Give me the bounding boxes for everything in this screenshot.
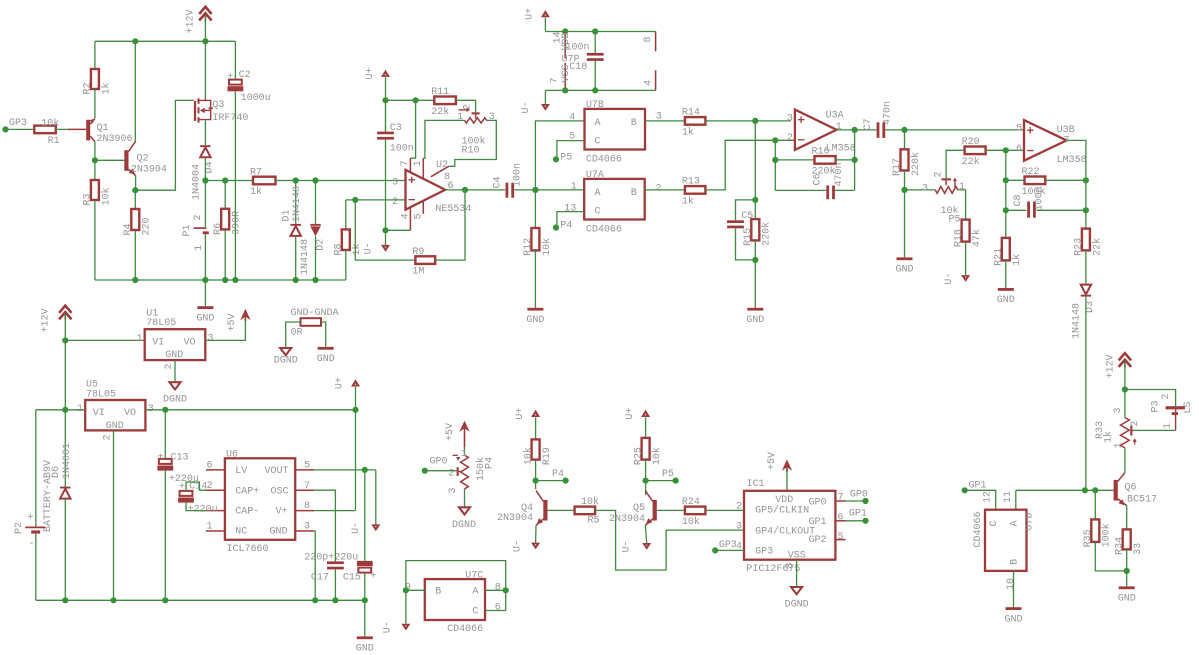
- pin GP2 stub: [835, 539, 845, 541]
- resistor R25 10k: [642, 438, 650, 460]
- svg-text:D2: D2: [316, 239, 327, 251]
- svg-text:R34: R34: [1114, 537, 1125, 555]
- svg-text:NE5534: NE5534: [435, 204, 471, 215]
- svg-text:1k: 1k: [250, 186, 262, 198]
- capacitor C13 220u: [164, 410, 166, 459]
- svg-text:V+: V+: [276, 507, 288, 518]
- svg-text:R3: R3: [83, 193, 94, 205]
- svg-text:1: 1: [1114, 442, 1125, 448]
- svg-text:100k: 100k: [1101, 523, 1113, 547]
- wire to U2 pin 7: [410, 100, 415, 158]
- transistor Q4 2N3904: [543, 500, 547, 521]
- junction -input / R9 drop: [352, 197, 358, 203]
- svg-text:2N3904: 2N3904: [497, 513, 533, 524]
- wire R10 pin3 to U2 pin8: [449, 120, 497, 166]
- svg-text:DGND: DGND: [785, 600, 809, 611]
- svg-text:8: 8: [785, 562, 796, 568]
- wire U3A output: [837, 129, 877, 131]
- diode D2 1N4148: [315, 181, 317, 224]
- svg-text:220: 220: [142, 217, 153, 235]
- wire C14 to CAP+: [186, 482, 206, 491]
- svg-text:47k: 47k: [971, 229, 983, 247]
- power symbol U- (R18): [965, 242, 967, 276]
- svg-text:1000u: 1000u: [241, 93, 271, 104]
- svg-text:1: 1: [194, 245, 205, 251]
- svg-text:GND: GND: [196, 313, 214, 324]
- net P4 stub (Q4): [536, 480, 566, 482]
- junction top rail / Q2 collector: [132, 38, 138, 44]
- svg-text:+5V: +5V: [227, 313, 238, 331]
- svg-text:BC517: BC517: [1127, 494, 1157, 505]
- wire Q1 collector to node: [94, 142, 96, 180]
- speaker P3 LS: [1125, 390, 1176, 407]
- svg-text:+: +: [227, 72, 233, 83]
- svg-text:8: 8: [643, 36, 654, 42]
- power symbol +5V (U1): [240, 309, 250, 320]
- svg-text:C18: C18: [569, 62, 587, 73]
- svg-text:1k: 1k: [351, 243, 363, 255]
- ground GND (output): [1119, 586, 1135, 589]
- net GP1 stub (U7D): [962, 487, 968, 493]
- svg-text:B: B: [1010, 559, 1021, 565]
- svg-text:LS: LS: [1183, 401, 1194, 413]
- wire C14 to CAP-: [186, 503, 206, 511]
- svg-text:P5: P5: [949, 215, 961, 226]
- wire D4 to node: [204, 158, 206, 181]
- trimpot R33 1k: [1124, 390, 1126, 418]
- svg-text:33: 33: [1133, 543, 1144, 555]
- svg-text:R25: R25: [633, 447, 644, 465]
- svg-text:LM358: LM358: [1057, 155, 1087, 166]
- svg-text:3: 3: [392, 177, 398, 188]
- junction C8 left: [1003, 207, 1009, 213]
- svg-text:2: 2: [787, 133, 793, 144]
- transistor Q6 BC517: [1114, 480, 1118, 501]
- svg-text:GP1: GP1: [849, 509, 867, 520]
- svg-text:U7B: U7B: [586, 100, 604, 111]
- wire Q6 emitter to R34: [1126, 506, 1128, 530]
- svg-text:2N3904: 2N3904: [609, 514, 645, 525]
- junction C13 top: [162, 407, 168, 413]
- IC U1 78L05 regulator: [145, 329, 206, 360]
- svg-text:1N4004: 1N4004: [191, 164, 202, 200]
- capacitor C3 100n: [385, 100, 387, 131]
- resistor R5 10k: [575, 507, 596, 515]
- wire U+ row (U7 VDD): [545, 31, 655, 33]
- ground GND (rail): [364, 600, 366, 636]
- resistor R23 22k: [1082, 229, 1090, 251]
- svg-text:5: 5: [1016, 123, 1022, 134]
- junction top rail / Q3 drain: [202, 38, 208, 44]
- svg-text:GND: GND: [526, 315, 544, 326]
- junction R13 node top: [752, 197, 758, 203]
- net GP0 stub: [422, 468, 428, 474]
- wire bottom bus GND: [95, 279, 346, 281]
- svg-text:6: 6: [1016, 144, 1022, 155]
- svg-text:2: 2: [103, 434, 114, 440]
- wire Q3 source to D4: [204, 121, 206, 146]
- svg-text:P5: P5: [560, 152, 572, 163]
- svg-text:C4: C4: [493, 176, 504, 188]
- svg-text:220k: 220k: [910, 152, 922, 176]
- transistor Q2 2N3904: [124, 150, 128, 171]
- wire 0R left to DGND: [286, 322, 301, 348]
- junction P5 net / Q5 collector: [643, 478, 649, 484]
- capacitor C15 220u: [364, 470, 366, 561]
- junction P4 net / Q4 collector: [533, 478, 539, 484]
- wire to U1 pin1: [65, 339, 144, 341]
- svg-text:DGND: DGND: [452, 520, 476, 531]
- svg-text:6: 6: [206, 461, 212, 472]
- svg-text:VDD: VDD: [775, 495, 793, 506]
- resistor R18 47k: [962, 220, 970, 242]
- svg-text:2: 2: [392, 197, 398, 208]
- junction C18 top: [592, 28, 598, 34]
- wire R6 column: [224, 181, 226, 209]
- wire U7C loop: [406, 561, 506, 591]
- svg-text:C: C: [472, 606, 478, 617]
- junction pin7: [562, 87, 568, 93]
- svg-text:C: C: [595, 137, 601, 148]
- svg-text:B: B: [435, 587, 441, 598]
- ground DGND (bridge): [280, 348, 291, 355]
- svg-text:P3: P3: [1151, 400, 1162, 412]
- svg-text:C7: C7: [863, 118, 874, 130]
- svg-text:+12V: +12V: [1105, 354, 1116, 378]
- svg-text:U7D: U7D: [1024, 512, 1035, 530]
- svg-text:GP4/CLKOUT: GP4/CLKOUT: [755, 526, 815, 538]
- svg-text:D4: D4: [205, 161, 216, 173]
- svg-text:78L05: 78L05: [146, 318, 176, 329]
- wire R10 pin1 to U2 pin1: [423, 120, 464, 158]
- svg-text:6: 6: [838, 512, 844, 523]
- svg-text:R11: R11: [431, 87, 449, 98]
- svg-text:220k: 220k: [761, 222, 773, 246]
- wire R14 to U3A +input: [705, 120, 791, 122]
- svg-text:OSC: OSC: [271, 486, 289, 497]
- svg-text:4: 4: [569, 112, 575, 123]
- IC U7B CD4066 switch: [585, 109, 646, 150]
- svg-text:R9: R9: [412, 247, 424, 258]
- svg-text:ICL7660: ICL7660: [227, 544, 269, 555]
- svg-text:R15: R15: [743, 228, 754, 246]
- wire R3 to bottom bus: [94, 200, 96, 280]
- svg-text:3: 3: [736, 522, 742, 533]
- svg-text:U2: U2: [436, 160, 448, 171]
- svg-text:7: 7: [304, 481, 310, 492]
- resistor R6 390R: [221, 209, 229, 230]
- svg-text:11: 11: [1003, 491, 1014, 503]
- wire feedback right column: [854, 130, 856, 191]
- IC U7C CD4066 switch: [425, 579, 485, 620]
- svg-text:10: 10: [1006, 578, 1017, 590]
- power symbol +5V (IC1): [782, 460, 792, 471]
- IC U7P power pins 14/7 VDD VSS: [564, 32, 566, 59]
- resistor R17 220k: [904, 130, 906, 149]
- svg-text:GND: GND: [106, 421, 124, 432]
- junction U1 input: [62, 337, 68, 343]
- svg-text:C8: C8: [1013, 194, 1024, 206]
- wire GP0 to wiper: [425, 470, 457, 472]
- svg-text:1: 1: [457, 112, 463, 123]
- svg-text:+5V: +5V: [767, 452, 778, 470]
- junction R35 / GP1: [1092, 487, 1098, 493]
- junction U5 input: [62, 407, 68, 413]
- wire rail to R2: [94, 41, 96, 69]
- svg-text:2: 2: [1130, 420, 1141, 426]
- svg-text:22k: 22k: [431, 106, 449, 118]
- junction bus C2: [232, 277, 238, 283]
- power symbol +5V (P4): [459, 421, 469, 432]
- svg-text:100n: 100n: [1034, 186, 1045, 210]
- svg-text:CD4066: CD4066: [447, 624, 483, 635]
- resistor R34 33: [1123, 529, 1131, 549]
- svg-text:3: 3: [448, 487, 459, 493]
- wire D3 to GP1 node: [1085, 297, 1087, 491]
- svg-text:3: 3: [1113, 407, 1124, 413]
- transistor Q5 2N3904: [653, 500, 657, 521]
- wire -input column: [1005, 150, 1007, 238]
- svg-text:-: -: [29, 539, 35, 550]
- svg-text:GND: GND: [746, 315, 764, 326]
- svg-text:1M: 1M: [412, 267, 424, 278]
- net P4 stub (U7A): [553, 225, 559, 231]
- svg-text:R20: R20: [962, 137, 980, 148]
- svg-text:P4: P4: [560, 221, 572, 232]
- svg-text:R4: R4: [123, 223, 134, 235]
- wire C4 to node: [514, 189, 535, 191]
- wire R16 row: [775, 159, 814, 161]
- wire Q2 emitter to Q3 gate: [135, 100, 194, 190]
- svg-text:+12V: +12V: [40, 308, 51, 332]
- svg-text:R35: R35: [1083, 529, 1094, 547]
- svg-text:+: +: [370, 572, 376, 583]
- junction R14 node: [752, 118, 758, 124]
- svg-text:GND: GND: [1005, 614, 1023, 625]
- wire Q5 base to R24: [657, 509, 685, 511]
- wire R7 to U2 +input: [276, 180, 405, 182]
- svg-text:1N4148: 1N4148: [292, 186, 303, 222]
- junction bus D2: [312, 277, 318, 283]
- junction C8 right: [1083, 207, 1089, 213]
- junction R22 right: [1083, 177, 1089, 183]
- svg-text:1: 1: [571, 181, 577, 192]
- wire R34 to GND node: [1126, 549, 1128, 586]
- junction Q2 emitter / gate link / R4: [132, 187, 138, 193]
- junction VOUT / C15: [362, 467, 368, 473]
- junction rail U6 GND: [312, 597, 318, 603]
- junction R34/R35 GND: [1124, 568, 1130, 574]
- svg-text:1: 1: [413, 160, 424, 166]
- resistor R15 220k: [751, 219, 759, 240]
- svg-text:GP0: GP0: [430, 456, 448, 467]
- wire R24 to PIC GP5: [705, 509, 744, 511]
- wire U6 GND to rail: [314, 531, 315, 600]
- svg-text:VI: VI: [93, 408, 105, 419]
- wire U7B control to P5: [557, 141, 585, 160]
- capacitor C8 100n: [1006, 209, 1027, 211]
- svg-text:D1: D1: [281, 209, 292, 221]
- svg-text:R21: R21: [994, 248, 1005, 266]
- ground DGND (IC1): [791, 587, 802, 594]
- svg-text:R23: R23: [1074, 238, 1085, 256]
- junction D3 / GP1: [1082, 487, 1088, 493]
- junction pin14: [562, 28, 568, 34]
- transistor Q3 IRF740 MOSFET: [194, 101, 196, 121]
- wire bottom supply rail: [36, 599, 365, 601]
- svg-text:VOUT: VOUT: [265, 466, 289, 477]
- svg-text:+220u: +220u: [188, 504, 218, 515]
- svg-text:C6: C6: [813, 173, 824, 185]
- svg-text:22k: 22k: [962, 156, 980, 168]
- svg-text:GND: GND: [270, 527, 288, 538]
- resistor R8 1k: [345, 200, 347, 230]
- wire node row to R7: [205, 180, 253, 182]
- svg-text:2: 2: [1161, 393, 1172, 399]
- wire U6 VOUT row: [314, 469, 376, 471]
- svg-text:1k: 1k: [1011, 254, 1023, 266]
- svg-text:GP0: GP0: [850, 490, 868, 501]
- wire U+ row to R11: [386, 99, 435, 101]
- svg-text:Q3: Q3: [212, 100, 224, 111]
- svg-text:A: A: [472, 587, 478, 598]
- power symbol U- (U2): [381, 245, 390, 252]
- svg-text:A: A: [595, 188, 601, 199]
- svg-text:10k: 10k: [682, 516, 700, 528]
- wire R17 to P5 node: [904, 171, 906, 190]
- wire R11 to R10 wiper: [456, 100, 476, 112]
- wire R35 to GND node: [1095, 542, 1126, 571]
- wire U1 out to +5V: [205, 320, 245, 341]
- junction D1 top: [293, 177, 299, 183]
- power symbol U+ (R19): [531, 410, 540, 417]
- junction R6 top: [222, 177, 228, 183]
- svg-text:390R: 390R: [232, 211, 243, 235]
- junction rail C15: [362, 597, 368, 603]
- wire U5 GND pin to rail: [113, 430, 115, 600]
- wire +12V column to U5: [64, 340, 66, 486]
- junction bus R6: [222, 277, 228, 283]
- svg-text:3: 3: [208, 333, 214, 344]
- junction Q1 collector / Q2 base / R3: [92, 157, 98, 163]
- svg-text:6: 6: [495, 602, 501, 613]
- wire R20 to U3B -input: [986, 149, 1024, 151]
- svg-text:1: 1: [461, 449, 467, 460]
- svg-text:1k: 1k: [1102, 431, 1114, 443]
- net GP3 stub (IC1): [712, 547, 718, 553]
- svg-text:5: 5: [304, 461, 310, 472]
- wire GP1 to U7D pin 12: [965, 490, 996, 509]
- svg-text:VI: VI: [152, 337, 164, 348]
- wire R20 left to wiper: [946, 150, 965, 178]
- junction rail U5 GND: [110, 597, 116, 603]
- op-amp U2 NE5534: [406, 170, 446, 210]
- svg-text:IC1: IC1: [747, 479, 765, 490]
- svg-text:CD4066: CD4066: [586, 155, 622, 166]
- capacitor C5 (with R15): [736, 200, 756, 220]
- wire R22 wires: [1006, 179, 1025, 181]
- sensor P1 (probe): [204, 181, 206, 227]
- svg-text:7: 7: [838, 493, 844, 504]
- ground GND (bridge): [318, 347, 334, 350]
- svg-text:R2: R2: [83, 82, 94, 94]
- resistor R11 22k: [434, 97, 456, 105]
- svg-text:R5: R5: [588, 516, 600, 527]
- svg-text:2: 2: [462, 104, 473, 110]
- wire VSS to DGND: [796, 560, 798, 587]
- svg-text:Q2: Q2: [137, 153, 149, 164]
- ground GND (R21): [1005, 260, 1007, 288]
- svg-text:0R: 0R: [291, 328, 303, 339]
- capacitor C2 1000u: [234, 41, 236, 79]
- svg-text:U-: U-: [351, 522, 362, 534]
- svg-text:R19: R19: [542, 447, 553, 465]
- svg-text:LV: LV: [235, 466, 247, 477]
- svg-text:78L05: 78L05: [86, 389, 116, 400]
- svg-text:C14: C14: [189, 482, 207, 493]
- svg-text:VSS: VSS: [788, 550, 806, 561]
- svg-text:10k: 10k: [581, 496, 599, 508]
- junction R16 right: [852, 157, 858, 163]
- capacitor C4 100n: [506, 183, 509, 198]
- svg-text:C3: C3: [390, 123, 402, 134]
- junction C4 / R12 / U7A / U7B node: [532, 187, 538, 193]
- wire node up to U7B pin 4: [535, 121, 584, 190]
- power symbol U+ (main): [351, 379, 360, 386]
- wire feedback left drop: [774, 140, 776, 190]
- wire C2 to bus: [234, 91, 236, 280]
- svg-text:CAP+: CAP+: [235, 486, 259, 497]
- ground GND (U7D): [1006, 607, 1022, 610]
- junction R17 top: [901, 127, 907, 133]
- svg-text:+12V: +12V: [186, 9, 197, 33]
- power symbol +12V (output): [1119, 353, 1131, 360]
- resistor R13 1k: [685, 186, 706, 194]
- svg-text:Q1: Q1: [97, 123, 109, 134]
- svg-text:1: 1: [77, 404, 83, 415]
- wire R23 to D3: [1085, 250, 1087, 284]
- junction rail C17: [332, 597, 338, 603]
- svg-text:2: 2: [164, 363, 175, 369]
- svg-text:U+: U+: [625, 408, 636, 420]
- junction bus P1: [202, 277, 208, 283]
- svg-text:Q5: Q5: [633, 503, 645, 514]
- svg-text:4: 4: [643, 80, 654, 86]
- svg-text:A: A: [595, 118, 601, 129]
- ground DGND (U1): [170, 382, 181, 389]
- svg-text:C13: C13: [171, 452, 189, 463]
- svg-text:C2: C2: [239, 70, 251, 81]
- svg-text:3: 3: [922, 183, 928, 194]
- power symbol +12V (top): [199, 7, 211, 14]
- wire Q2 base: [95, 159, 125, 161]
- junction P5 pot pin3: [901, 187, 907, 193]
- svg-text:Q6: Q6: [1125, 482, 1137, 493]
- wire Q5 emitter to U-: [645, 525, 646, 543]
- svg-text:13: 13: [564, 203, 576, 214]
- svg-text:7: 7: [400, 160, 411, 166]
- power symbol U- (Q4): [531, 543, 540, 550]
- svg-text:VO: VO: [124, 408, 136, 419]
- wire GP3 to R1: [6, 128, 35, 130]
- wire R2 to Q1 emitter: [94, 89, 96, 118]
- wire U3B output down: [1067, 140, 1086, 228]
- svg-text:10k: 10k: [541, 238, 553, 256]
- op-amp U3B LM358: [1024, 120, 1067, 161]
- svg-text:GND: GND: [997, 295, 1015, 306]
- svg-text:10k: 10k: [522, 447, 534, 465]
- wire R5 to PIC GP4: [595, 510, 744, 570]
